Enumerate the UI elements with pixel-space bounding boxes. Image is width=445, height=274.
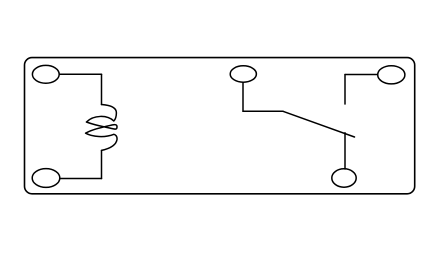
wire pin1 to coil top bbox=[59, 73, 101, 75]
wire common vertical bbox=[242, 82, 244, 111]
wire NO contact stub bbox=[344, 75, 346, 105]
wire blade to pin 5 bbox=[344, 133, 346, 169]
terminal pin 3 (common, top-middle) bbox=[230, 66, 256, 82]
terminal pin 5 (switched, bottom-middle) bbox=[332, 169, 356, 187]
relay body outline K1 bbox=[25, 58, 415, 194]
terminal pin 1 (coil, top-left) bbox=[32, 65, 59, 83]
terminal pin 2 (coil, bottom-left) bbox=[32, 169, 60, 188]
terminal pin 4 (NO contact, top-right) bbox=[378, 66, 405, 84]
wire coil top vertical bbox=[101, 74, 103, 104]
wire pin4 horizontal bbox=[345, 74, 378, 76]
switch blade (movable contact) bbox=[283, 111, 355, 137]
wire coil bottom vertical bbox=[101, 151, 103, 179]
wire common horizontal bbox=[243, 110, 283, 112]
wire coil bottom to pin 2 bbox=[60, 178, 102, 180]
relay coil L1 bbox=[86, 105, 117, 151]
